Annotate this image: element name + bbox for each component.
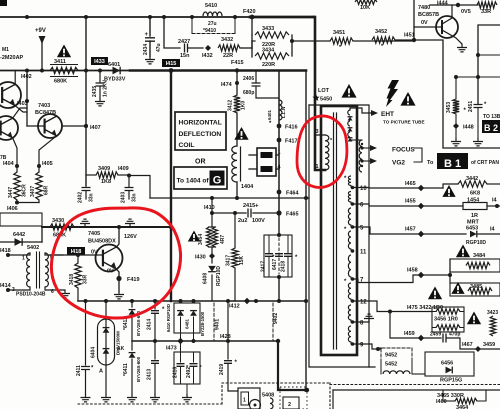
svg-text:I418: I418 — [0, 248, 11, 254]
svg-text:To 1404 of: To 1404 of — [177, 178, 210, 185]
svg-text:I473: I473 — [166, 346, 177, 352]
warning triangle deflection — [234, 127, 248, 140]
corner mark — [0, 0, 7, 6]
svg-text:9452: 9452 — [385, 353, 397, 359]
svg-text:+: + — [255, 204, 259, 210]
svg-text:DEFLECTION: DEFLECTION — [179, 131, 222, 138]
svg-text:EHT: EHT — [381, 111, 394, 118]
node F417 — [277, 138, 282, 143]
node F464 — [277, 190, 282, 195]
resistor 3433 220R — [251, 17, 253, 35]
svg-text:I412: I412 — [229, 304, 240, 310]
connector CRT socket — [257, 148, 276, 176]
wire I451 to B2 box corner — [414, 40, 500, 148]
inductor 5401 bead — [279, 100, 282, 120]
box flyback outer — [309, 105, 375, 367]
pin 5 — [351, 225, 355, 229]
pin 7 — [351, 277, 355, 281]
wire pin5 tap — [353, 227, 467, 234]
resistor 3411 680K — [50, 67, 78, 73]
annotation red circle around LOT primary — [297, 116, 347, 188]
svg-text:3417: 3417 — [226, 255, 232, 266]
svg-text:TO 13B: TO 13B — [483, 114, 500, 120]
diode box 6410 6481 BY228-1500 — [174, 303, 200, 333]
diode 6456 box — [425, 352, 474, 376]
svg-text:6456: 6456 — [441, 361, 453, 367]
transformer core — [333, 113, 335, 349]
box capacitors 2417 6417 2418 — [264, 235, 292, 277]
ground for Q7480 emitter — [457, 44, 467, 52]
resistor 3442 6K8 — [443, 184, 458, 188]
svg-text:RGP10D: RGP10D — [216, 266, 222, 286]
capacitor 2434 47u — [149, 17, 151, 36]
dotted box 5408 — [280, 387, 307, 409]
svg-text:2403: 2403 — [121, 192, 127, 203]
box HORIZONTAL DEFLECTION COIL — [175, 112, 226, 150]
svg-text:2415: 2415 — [243, 203, 255, 209]
svg-text:2: 2 — [288, 402, 291, 408]
node I455 — [418, 203, 424, 209]
wire mid bus — [132, 340, 278, 342]
svg-text:3: 3 — [316, 129, 319, 135]
svg-text:3456 1R0: 3456 1R0 — [434, 317, 458, 323]
inductor 1404 deflection coil — [232, 146, 237, 182]
svg-text:2411: 2411 — [76, 365, 82, 376]
svg-text:PSD10-204B: PSD10-204B — [16, 292, 46, 298]
svg-text:6404: 6404 — [91, 347, 97, 358]
svg-text:A: A — [99, 369, 103, 375]
wire Q7405 collector — [116, 227, 119, 247]
wire F column to bus — [278, 277, 280, 301]
resistor 3409 1K8 — [86, 174, 96, 176]
wire focus bracket — [414, 148, 422, 162]
svg-text:I406: I406 — [7, 206, 18, 212]
svg-text:*9410: *9410 — [203, 28, 216, 34]
ground 6411 — [127, 394, 137, 402]
diode 6411 BYV26X-600 — [131, 341, 133, 350]
arrow FOCUS — [362, 147, 370, 149]
box To 1404 of G — [174, 167, 227, 189]
svg-text:RGP10D: RGP10D — [466, 240, 486, 246]
svg-text:AK: AK — [117, 346, 125, 352]
pin 8 — [351, 320, 355, 324]
svg-text:I407: I407 — [90, 125, 101, 131]
svg-text:1: 1 — [243, 398, 246, 404]
wire top supply bus — [0, 16, 250, 18]
svg-text:COIL: COIL — [179, 142, 195, 149]
svg-text:7405: 7405 — [88, 231, 100, 237]
svg-text:1K8: 1K8 — [101, 179, 111, 185]
resistor 3456 1R0 parallel box — [432, 307, 464, 332]
wire pin12 tap — [353, 301, 433, 312]
wire return line — [150, 197, 309, 199]
svg-text:I410: I410 — [204, 205, 215, 211]
svg-text:6: 6 — [51, 289, 54, 295]
wire 2415 row — [212, 212, 246, 214]
svg-text:I448: I448 — [463, 125, 474, 131]
resistor 3407 68R — [36, 172, 42, 200]
svg-text:10K: 10K — [360, 5, 370, 11]
arrow EHT — [371, 110, 378, 116]
transformer secondary windings — [348, 176, 351, 186]
wire pin10 tap — [353, 187, 444, 190]
diode 6408 RGP10D — [211, 256, 213, 263]
svg-text:I414: I414 — [0, 283, 12, 289]
box damper 6442 — [0, 213, 42, 226]
resistor 3417 15K — [232, 248, 238, 268]
node I459 — [418, 335, 424, 341]
wire pin7 tap to I458 — [353, 275, 450, 283]
node I405 — [37, 164, 41, 168]
svg-text:680p: 680p — [243, 90, 254, 96]
node I432 — [205, 45, 211, 51]
svg-text:15n: 15n — [180, 53, 190, 59]
svg-text:I432: I432 — [202, 53, 213, 59]
wire jog to deflection return — [129, 176, 150, 199]
ground for 2434 — [145, 56, 155, 64]
svg-text:of CRT PAN: of CRT PAN — [471, 160, 499, 166]
wire 126V row — [42, 226, 171, 228]
resistor 10K top — [355, 0, 377, 5]
svg-text:3432: 3432 — [221, 37, 233, 43]
svg-text:2419: 2419 — [219, 364, 225, 375]
warning triangle I475 — [428, 287, 442, 300]
resistor 3484 box — [449, 259, 451, 275]
label I415 inverse — [162, 59, 180, 67]
svg-text:5408: 5408 — [262, 393, 274, 399]
svg-text:27u: 27u — [208, 21, 217, 27]
svg-text:6410 RGP10D: 6410 RGP10D — [166, 304, 171, 332]
svg-text:M1: M1 — [2, 47, 9, 53]
node I406 — [15, 201, 19, 205]
svg-text:I409: I409 — [118, 166, 129, 172]
capacitor 2417 — [265, 254, 273, 257]
node for 2435 — [98, 69, 102, 73]
connector bottom 1 2 — [238, 388, 260, 409]
resistor 3434 220R — [255, 53, 289, 59]
ground 2411 — [81, 394, 91, 402]
svg-text:1404: 1404 — [241, 184, 254, 190]
resistor 3452 — [372, 37, 395, 43]
capacitor 6417 dashed — [278, 238, 280, 274]
svg-text:3407: 3407 — [30, 186, 36, 197]
svg-text:0V: 0V — [421, 20, 428, 26]
wire Q3 collector to I407 — [62, 125, 86, 127]
svg-text:6401: 6401 — [108, 62, 120, 68]
diode 6412 BYV26X-600 — [131, 301, 133, 307]
capacitor 2427 15n — [185, 44, 188, 53]
svg-text:680K: 680K — [54, 79, 67, 85]
wire parallel pair right rail — [291, 35, 293, 56]
svg-text:BYV26X-600: BYV26X-600 — [136, 356, 141, 382]
dotted border bottom — [78, 403, 222, 405]
svg-text:1: 1 — [22, 256, 25, 262]
svg-text:2414: 2414 — [147, 319, 153, 330]
ground 5402 pin6 — [60, 290, 70, 298]
node I473 — [177, 338, 183, 344]
box bottom right — [333, 389, 500, 391]
wire pin8 tap with ground — [353, 321, 370, 323]
resistor 3418 33R — [77, 255, 79, 263]
svg-text:15K: 15K — [239, 255, 245, 265]
warning triangle LOT — [341, 84, 356, 98]
pin 9 — [351, 342, 355, 346]
svg-text:I403: I403 — [17, 101, 28, 107]
svg-text:126V: 126V — [124, 234, 137, 240]
resistor 3451 — [330, 38, 353, 44]
svg-text:470p: 470p — [449, 332, 460, 338]
svg-text:2434: 2434 — [143, 44, 149, 55]
lightning bolt — [386, 80, 399, 107]
wire pin9 tap — [353, 344, 382, 349]
svg-text:6K8: 6K8 — [470, 191, 480, 197]
svg-text:I428: I428 — [220, 334, 231, 340]
ground for 3453 — [455, 126, 457, 138]
svg-text:3453: 3453 — [446, 102, 452, 113]
wire branch to 2427 — [164, 17, 180, 48]
wire main bus 141V — [0, 70, 130, 72]
wire EHT output — [350, 108, 371, 113]
capacitor 2419 column — [227, 301, 229, 359]
diode 6401 BYD33V — [113, 67, 121, 75]
pin 10 — [351, 186, 355, 190]
warning triangle 3454 — [188, 231, 200, 242]
svg-text:9401: 9401 — [215, 319, 221, 330]
svg-text:6401: 6401 — [267, 109, 272, 120]
svg-text:2418: 2418 — [281, 261, 287, 272]
wire right edge column — [478, 25, 500, 103]
connector B1 black box — [437, 153, 468, 169]
ground 6404 — [101, 394, 111, 402]
node junction on top bus — [25, 15, 29, 19]
svg-text:I415: I415 — [166, 61, 177, 67]
node I444 — [456, 3, 460, 7]
resistor 33R top right — [477, 2, 497, 8]
pin 12 — [351, 299, 355, 303]
svg-text:47u: 47u — [156, 43, 162, 52]
svg-text:0V5: 0V5 — [461, 9, 471, 15]
node I448 — [455, 114, 457, 126]
svg-text:3418: 3418 — [69, 274, 75, 285]
ground above wire left — [80, 219, 90, 227]
svg-text:5452: 5452 — [385, 362, 397, 368]
svg-text:6408: 6408 — [203, 273, 209, 284]
diode 6442 — [0, 241, 42, 243]
svg-text:5410: 5410 — [205, 3, 217, 9]
ground for 2435 — [95, 98, 105, 106]
svg-text:0V: 0V — [107, 269, 114, 275]
svg-text:3412: 3412 — [228, 100, 234, 111]
svg-text:I405: I405 — [42, 161, 53, 167]
node I458 — [418, 272, 424, 278]
svg-text:HORIZONTAL: HORIZONTAL — [179, 120, 222, 127]
wire thick bus x=315 from top — [314, 17, 325, 170]
svg-text:-2M20AP: -2M20AP — [0, 55, 24, 61]
svg-text:I457: I457 — [405, 227, 416, 233]
svg-text:I467: I467 — [462, 342, 473, 348]
svg-text:F416: F416 — [285, 125, 298, 131]
svg-text:3430: 3430 — [52, 218, 64, 224]
transformer focus divider winding — [350, 139, 362, 141]
box flyback thick — [321, 106, 357, 355]
svg-text:F464: F464 — [286, 191, 299, 197]
svg-text:3451: 3451 — [333, 30, 345, 36]
svg-text:6481: 6481 — [185, 318, 190, 329]
wire mid bus drop thick — [276, 339, 280, 343]
node F420 — [250, 15, 255, 20]
ground for F419 — [118, 278, 120, 291]
wire F column — [278, 71, 280, 214]
svg-text:2u2: 2u2 — [238, 218, 247, 224]
wire Q3 base — [27, 125, 45, 127]
svg-text:OR: OR — [195, 159, 206, 166]
transistor Q2 — [0, 116, 18, 140]
capacitor 2402 33n — [82, 188, 91, 191]
wire 3417 column — [233, 211, 237, 215]
node I451 — [412, 38, 416, 42]
svg-text:F417: F417 — [285, 139, 298, 145]
wire Q2 emitter to 3447 — [13, 138, 17, 172]
svg-text:7403: 7403 — [38, 103, 50, 109]
dashed 9401 — [213, 303, 215, 341]
svg-text:22R: 22R — [223, 53, 233, 59]
capacitor 2411 — [85, 301, 87, 365]
warning triangle 1454 — [442, 185, 455, 197]
svg-text:3464: 3464 — [456, 405, 469, 409]
capacitor 2459 470p — [443, 334, 446, 343]
svg-text:3459: 3459 — [483, 342, 495, 348]
svg-text:3442: 3442 — [466, 176, 478, 182]
svg-text:4R7: 4R7 — [220, 235, 226, 244]
warning triangle above 3411 — [57, 45, 71, 58]
capacitor 2418 — [284, 254, 292, 257]
svg-text:I451: I451 — [404, 33, 415, 39]
svg-text:2402: 2402 — [78, 192, 84, 203]
svg-text:3452: 3452 — [375, 29, 387, 35]
node I412 — [244, 298, 250, 304]
warning triangle right of bolt — [400, 92, 415, 106]
svg-text:F420: F420 — [243, 9, 256, 15]
box 9452 5452 — [381, 348, 412, 362]
pin 6 — [351, 202, 355, 206]
label I418 inverse — [67, 247, 85, 255]
node I465 — [418, 185, 424, 191]
capacitor 2451 — [477, 103, 479, 104]
resistor 1R MRT box — [463, 203, 487, 210]
svg-text:F465: F465 — [286, 212, 299, 218]
node I404 — [15, 164, 19, 168]
svg-text:VG2: VG2 — [392, 160, 405, 167]
ground for 2451 — [473, 138, 483, 146]
svg-text:I430: I430 — [195, 255, 206, 261]
svg-text:5450: 5450 — [320, 97, 332, 103]
wire pin6 tap — [353, 204, 464, 206]
ground 2413 — [150, 394, 160, 402]
svg-text:I459: I459 — [404, 331, 415, 337]
svg-text:3454: 3454 — [198, 234, 204, 245]
svg-text:I474: I474 — [221, 82, 233, 88]
svg-text:33R: 33R — [481, 9, 491, 15]
warning triangle 3485 — [451, 282, 464, 294]
resistor 3447 36CR — [14, 172, 20, 200]
svg-text:3433: 3433 — [262, 26, 274, 32]
svg-text:3447: 3447 — [8, 187, 14, 198]
svg-text:G: G — [213, 175, 222, 187]
svg-text:2413: 2413 — [147, 369, 153, 380]
svg-text:3485: 3485 — [470, 284, 482, 290]
wire F column continues — [278, 213, 280, 235]
svg-text:1K0: 1K0 — [241, 101, 247, 110]
svg-text:9402: 9402 — [273, 313, 279, 324]
svg-text:+9V: +9V — [35, 28, 46, 34]
svg-text:I404: I404 — [3, 161, 15, 167]
svg-text:2459: 2459 — [430, 332, 441, 338]
svg-text:I455: I455 — [405, 199, 416, 205]
svg-text:I433: I433 — [94, 59, 105, 65]
svg-text:2435: 2435 — [92, 86, 98, 97]
wire Q7405 base — [50, 254, 103, 256]
node I457 — [418, 231, 424, 237]
svg-text:1: 1 — [316, 164, 319, 170]
svg-text:3423: 3423 — [487, 310, 498, 316]
svg-text:TO PICTURE TUBE: TO PICTURE TUBE — [383, 120, 425, 125]
svg-text:3409: 3409 — [98, 166, 110, 172]
wire I407 row — [84, 124, 88, 128]
node I402 — [25, 69, 29, 73]
capacitor 2435 1n 2KV — [99, 70, 101, 82]
node I409 — [127, 174, 131, 178]
svg-text:FOCUS: FOCUS — [392, 147, 415, 154]
svg-text:3484: 3484 — [473, 253, 486, 259]
wire 3451 to I451 — [353, 40, 414, 42]
ground 2416 2492 — [186, 384, 188, 394]
capacitor 2413 — [154, 341, 156, 359]
svg-text:3: 3 — [12, 287, 15, 293]
node F465 — [276, 210, 281, 215]
box capacitors 2416 2492 — [174, 352, 200, 384]
svg-text:BU4508DX: BU4508DX — [88, 239, 116, 245]
svg-text:+: + — [145, 32, 149, 38]
wire Q7405 emitter to F419 — [116, 269, 119, 277]
warning triangle 3484 — [456, 245, 470, 258]
svg-text:2417: 2417 — [261, 261, 267, 272]
resistor 3432 22R — [218, 45, 240, 51]
wire vertical I451 column — [413, 0, 415, 40]
svg-text:36CR: 36CR — [22, 184, 28, 197]
node F416 — [277, 124, 282, 129]
resistor 3454 4R7 parallel pair — [211, 213, 213, 227]
capacitor 2406 680p — [255, 71, 257, 83]
wire deflection coil return — [236, 182, 238, 198]
svg-text:I458: I458 — [407, 268, 418, 274]
transformer EHT winding with diodes — [348, 110, 350, 115]
capacitor 2403 33n — [128, 175, 130, 187]
svg-text:1R: 1R — [471, 213, 478, 219]
wire inner left flyback — [305, 71, 307, 391]
capacitor 2414 — [154, 301, 156, 309]
svg-text:To: To — [427, 160, 434, 166]
svg-text:6442: 6442 — [13, 232, 25, 238]
svg-text:2427: 2427 — [178, 39, 190, 45]
wire Q3 emitter to 3407 — [39, 136, 57, 172]
pin 11 — [351, 249, 355, 253]
svg-text:220R: 220R — [262, 62, 275, 68]
svg-text:33n: 33n — [89, 193, 95, 202]
svg-text:I444: I444 — [437, 1, 449, 7]
resistor 3412 1K0 — [234, 95, 240, 113]
warning triangle 3456 — [467, 312, 481, 325]
svg-text:2416: 2416 — [173, 367, 179, 378]
